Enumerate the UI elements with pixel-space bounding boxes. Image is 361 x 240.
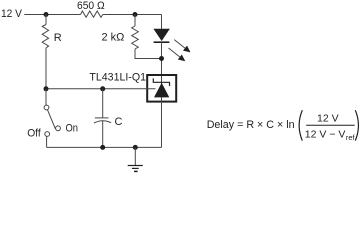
svg-text:2 kΩ: 2 kΩ (102, 32, 125, 44)
svg-text:C: C (115, 116, 123, 128)
svg-text:ref: ref (346, 133, 356, 142)
svg-text:12 V: 12 V (317, 112, 339, 124)
svg-text:650 Ω: 650 Ω (77, 0, 105, 12)
svg-text:12 V: 12 V (1, 8, 23, 20)
svg-text:R: R (54, 32, 62, 44)
svg-text:On: On (66, 123, 79, 135)
svg-text:Off: Off (27, 127, 41, 139)
svg-text:Delay = R × C × ln: Delay = R × C × ln (207, 119, 295, 131)
svg-text:12 V − V: 12 V − V (305, 128, 346, 140)
svg-text:TL431LI-Q1: TL431LI-Q1 (89, 72, 146, 84)
